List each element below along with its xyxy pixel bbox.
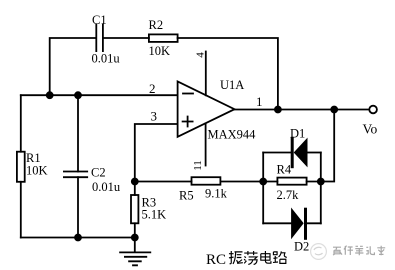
value 10K of R1 bbox=[26, 164, 48, 178]
pin number 4 bbox=[194, 52, 206, 58]
svg-text:4: 4 bbox=[194, 52, 206, 58]
title hanzi lu (路) bbox=[273, 251, 287, 263]
label C2 bbox=[91, 166, 106, 180]
svg-text:10K: 10K bbox=[149, 44, 171, 58]
svg-text:R2: R2 bbox=[149, 18, 164, 32]
label R5 bbox=[179, 189, 194, 203]
node junction at C1 branch bbox=[47, 92, 53, 98]
pin number 11 bbox=[192, 160, 204, 171]
node junction feedback tap bbox=[275, 107, 281, 113]
svg-text:C2: C2 bbox=[91, 166, 106, 180]
wire R4 branch right bbox=[307, 181, 321, 183]
wire C1 to R2 bbox=[103, 37, 149, 39]
svg-text:9.1k: 9.1k bbox=[205, 187, 228, 201]
label R1 bbox=[26, 151, 41, 165]
svg-text:0.01u: 0.01u bbox=[92, 52, 121, 66]
op-amp minus symbol bbox=[183, 93, 193, 95]
node junction output branch bbox=[331, 107, 337, 113]
resistor R2 bbox=[149, 34, 178, 42]
wire top feedback from node A up to C1 bbox=[50, 38, 96, 95]
svg-text:5.1K: 5.1K bbox=[142, 208, 167, 222]
svg-text:D2: D2 bbox=[294, 240, 309, 254]
svg-text:C1: C1 bbox=[92, 13, 107, 27]
value 10K of R2 bbox=[149, 44, 171, 58]
svg-text:10K: 10K bbox=[26, 164, 48, 178]
op-amp plus symbol bbox=[183, 117, 193, 127]
svg-text:U1A: U1A bbox=[220, 78, 244, 92]
wire diode network right rail bbox=[320, 153, 322, 224]
svg-text:0.01u: 0.01u bbox=[92, 180, 121, 194]
wire op-amp output (pin 1) bbox=[235, 109, 370, 111]
pin number 3 bbox=[151, 109, 158, 124]
wire D1 branch left bbox=[263, 152, 291, 154]
pin 4 power wire bbox=[205, 52, 207, 96]
node junction R3/R5 bbox=[132, 179, 138, 185]
wire D2 branch left bbox=[263, 222, 292, 224]
svg-text:RC: RC bbox=[206, 252, 226, 268]
wire C2 branch down bbox=[77, 95, 79, 171]
resistor R4 bbox=[277, 178, 306, 185]
op-amp U1A triangle bbox=[178, 82, 235, 137]
designator U1A bbox=[220, 78, 244, 92]
wire D1 branch right bbox=[307, 152, 321, 154]
pin number 2 bbox=[149, 81, 156, 96]
title hanzi zhen (振) bbox=[229, 251, 243, 264]
value 2.7k of R4 bbox=[277, 188, 300, 202]
wire non-inverting input (pin 3) bbox=[135, 124, 178, 182]
pin 11 power wire bbox=[205, 124, 207, 166]
wire C2 to bottom rail bbox=[77, 177, 79, 237]
resistor R3 bbox=[131, 195, 138, 223]
label D2 bbox=[294, 240, 309, 254]
wire diode network left rail bbox=[262, 153, 264, 224]
svg-text:MAX944: MAX944 bbox=[208, 128, 257, 142]
wire R2 to output node bbox=[178, 38, 278, 110]
svg-text:R4: R4 bbox=[277, 163, 292, 177]
svg-text:2: 2 bbox=[149, 81, 156, 96]
value 0.01u of C1 bbox=[92, 52, 121, 66]
label R2 bbox=[149, 18, 164, 32]
wire bottom rail bbox=[21, 237, 135, 239]
title text RC (of RC oscillator circuit) bbox=[206, 252, 226, 268]
node junction C2 bottom bbox=[75, 235, 81, 241]
svg-text:3: 3 bbox=[151, 109, 158, 124]
wire R5 to diode network bbox=[220, 181, 263, 183]
node junction ground bbox=[132, 235, 138, 241]
node junction diode network right bbox=[318, 179, 324, 185]
diode D1 bbox=[292, 138, 307, 166]
svg-text:11: 11 bbox=[192, 160, 204, 171]
node junction at C2 branch bbox=[75, 92, 81, 98]
wire R4 branch left bbox=[263, 181, 277, 183]
wire R3 bottom bbox=[134, 223, 136, 237]
pin number 1 bbox=[256, 94, 263, 109]
capacitor C2 bbox=[64, 172, 87, 178]
resistor R5 bbox=[192, 177, 221, 185]
svg-text:2.7k: 2.7k bbox=[277, 188, 300, 202]
value 5.1K of R3 bbox=[142, 208, 167, 222]
resistor R1 bbox=[17, 152, 25, 182]
node junction diode network left bbox=[260, 179, 266, 185]
svg-text:1: 1 bbox=[256, 94, 263, 109]
title hanzi dang (荡) bbox=[244, 251, 257, 264]
watermark logo circle bbox=[311, 244, 327, 260]
label Vo bbox=[363, 122, 378, 137]
wire R3 node to R5 bbox=[135, 181, 192, 183]
diode D2 bbox=[292, 209, 306, 238]
wire D2 branch right bbox=[306, 222, 321, 224]
wire network right to output rail bbox=[321, 110, 334, 182]
svg-text:R5: R5 bbox=[179, 189, 194, 203]
value 0.01u of C2 bbox=[92, 180, 121, 194]
label C1 bbox=[92, 13, 107, 27]
wire inverting input (pin 2) bbox=[21, 94, 178, 96]
svg-text:Vo: Vo bbox=[363, 122, 378, 137]
label R3 bbox=[142, 196, 157, 210]
value 9.1k of R5 bbox=[205, 187, 228, 201]
wire left rail down to R1 bbox=[20, 95, 22, 152]
capacitor C1 bbox=[96, 24, 103, 51]
label D1 bbox=[290, 127, 305, 141]
ground bbox=[120, 238, 150, 266]
wire R3 top bbox=[134, 182, 136, 196]
title hanzi dian (电) bbox=[261, 251, 271, 263]
part number MAX944 bbox=[208, 128, 257, 142]
svg-text:D1: D1 bbox=[290, 127, 305, 141]
watermark text ying jian bi ji ben (硬件笔记本) bbox=[333, 246, 385, 256]
wire R1 to bottom rail bbox=[20, 182, 22, 238]
label R4 bbox=[277, 163, 292, 177]
terminal Vo circle bbox=[369, 106, 377, 114]
